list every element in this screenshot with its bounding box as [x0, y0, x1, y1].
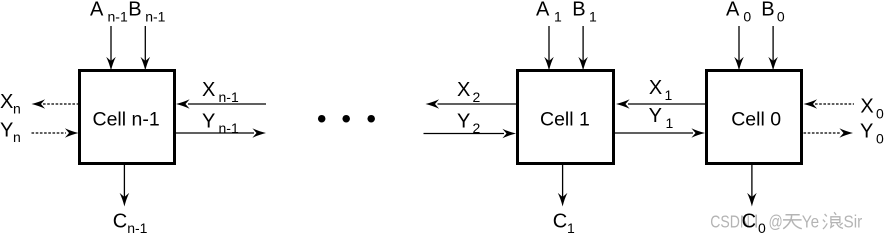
label B 0: [761, 0, 785, 24]
svg-text:n-1: n-1: [108, 8, 128, 24]
svg-text:n-1: n-1: [219, 89, 239, 105]
svg-text:n: n: [13, 101, 21, 117]
wire Y 0 output (dashed): [804, 128, 854, 138]
svg-text:1: 1: [567, 220, 575, 236]
label Y 2: [457, 111, 481, 137]
cell block Cell 0: [707, 71, 802, 164]
label X n: [0, 91, 21, 117]
wire X n-1 input: [176, 99, 266, 109]
svg-text:A: A: [536, 0, 550, 21]
svg-text:C: C: [742, 211, 756, 233]
svg-text:Y: Y: [457, 111, 470, 133]
svg-text:0: 0: [743, 8, 751, 24]
svg-text:A: A: [726, 0, 740, 21]
svg-text:0: 0: [876, 106, 884, 122]
label C 1: [553, 211, 575, 237]
wire input A 0: [734, 26, 744, 71]
watermark CSDNl@天Ye浪Sir: [710, 211, 862, 232]
svg-text:@: @: [769, 212, 783, 232]
label A n-1: [90, 0, 128, 24]
label Y 1: [649, 105, 674, 131]
svg-text:n-1: n-1: [127, 220, 147, 236]
wire Y n input (dashed): [32, 128, 79, 138]
label C 0: [742, 211, 766, 237]
label A 0: [726, 0, 751, 24]
svg-text:C: C: [553, 211, 567, 233]
wire input B 0: [768, 26, 778, 71]
wire X 2 output: [426, 99, 517, 109]
svg-text:2: 2: [473, 89, 481, 105]
wire output C 0: [747, 165, 757, 207]
svg-text:X: X: [860, 96, 873, 118]
wire Y 2 input: [424, 129, 517, 139]
ellipsis dots: [318, 115, 375, 123]
wire Y 1: [615, 128, 705, 138]
wire X n output (dashed): [32, 99, 80, 109]
svg-text:1: 1: [666, 115, 674, 131]
svg-text:0: 0: [758, 220, 766, 236]
svg-text:X: X: [649, 77, 662, 99]
svg-text:Ye: Ye: [802, 211, 819, 231]
label Y n-1: [202, 111, 239, 137]
wire X 1: [616, 99, 705, 109]
wire input B 1: [578, 26, 588, 71]
svg-text:Sir: Sir: [844, 211, 863, 231]
svg-text:Cell 1: Cell 1: [540, 109, 590, 131]
wire input B n-1: [141, 26, 151, 71]
svg-text:0: 0: [777, 8, 785, 24]
svg-text:B: B: [128, 0, 141, 21]
wire Y n-1 output: [176, 128, 266, 138]
svg-text:X: X: [202, 79, 215, 101]
cell block Cell n-1: [80, 71, 175, 164]
svg-text:1: 1: [665, 87, 673, 103]
label Y n: [0, 120, 21, 146]
label C n-1: [113, 211, 148, 237]
svg-text:B: B: [572, 0, 585, 21]
label X 0: [860, 96, 884, 122]
svg-text:A: A: [90, 0, 104, 21]
svg-text:0: 0: [876, 131, 884, 147]
wire output C n-1: [120, 165, 130, 207]
wire input A 1: [544, 26, 554, 71]
svg-text:1: 1: [554, 8, 562, 24]
svg-text:Y: Y: [860, 121, 873, 143]
svg-text:Y: Y: [649, 105, 662, 127]
svg-text:n-1: n-1: [145, 8, 165, 24]
label X 1: [649, 77, 673, 103]
wire X 0 input (dashed): [804, 99, 855, 109]
svg-text:C: C: [113, 211, 127, 233]
label B n-1: [128, 0, 165, 24]
svg-text:X: X: [457, 79, 470, 101]
svg-text:n: n: [13, 129, 21, 145]
label Y 0: [860, 121, 884, 147]
cell block Cell 1: [518, 71, 614, 164]
label X n-1: [202, 79, 239, 105]
label A 1: [536, 0, 562, 24]
svg-text:Y: Y: [202, 111, 215, 133]
label X 2: [457, 79, 481, 105]
svg-text:X: X: [0, 91, 13, 113]
svg-text:Y: Y: [0, 120, 13, 142]
svg-text:B: B: [761, 0, 774, 21]
svg-text:Cell n-1: Cell n-1: [93, 109, 160, 131]
svg-text:Cell 0: Cell 0: [731, 109, 781, 131]
wire input A n-1: [106, 26, 116, 71]
svg-text:1: 1: [589, 8, 597, 24]
wire output C 1: [558, 165, 568, 207]
label B 1: [572, 0, 597, 24]
